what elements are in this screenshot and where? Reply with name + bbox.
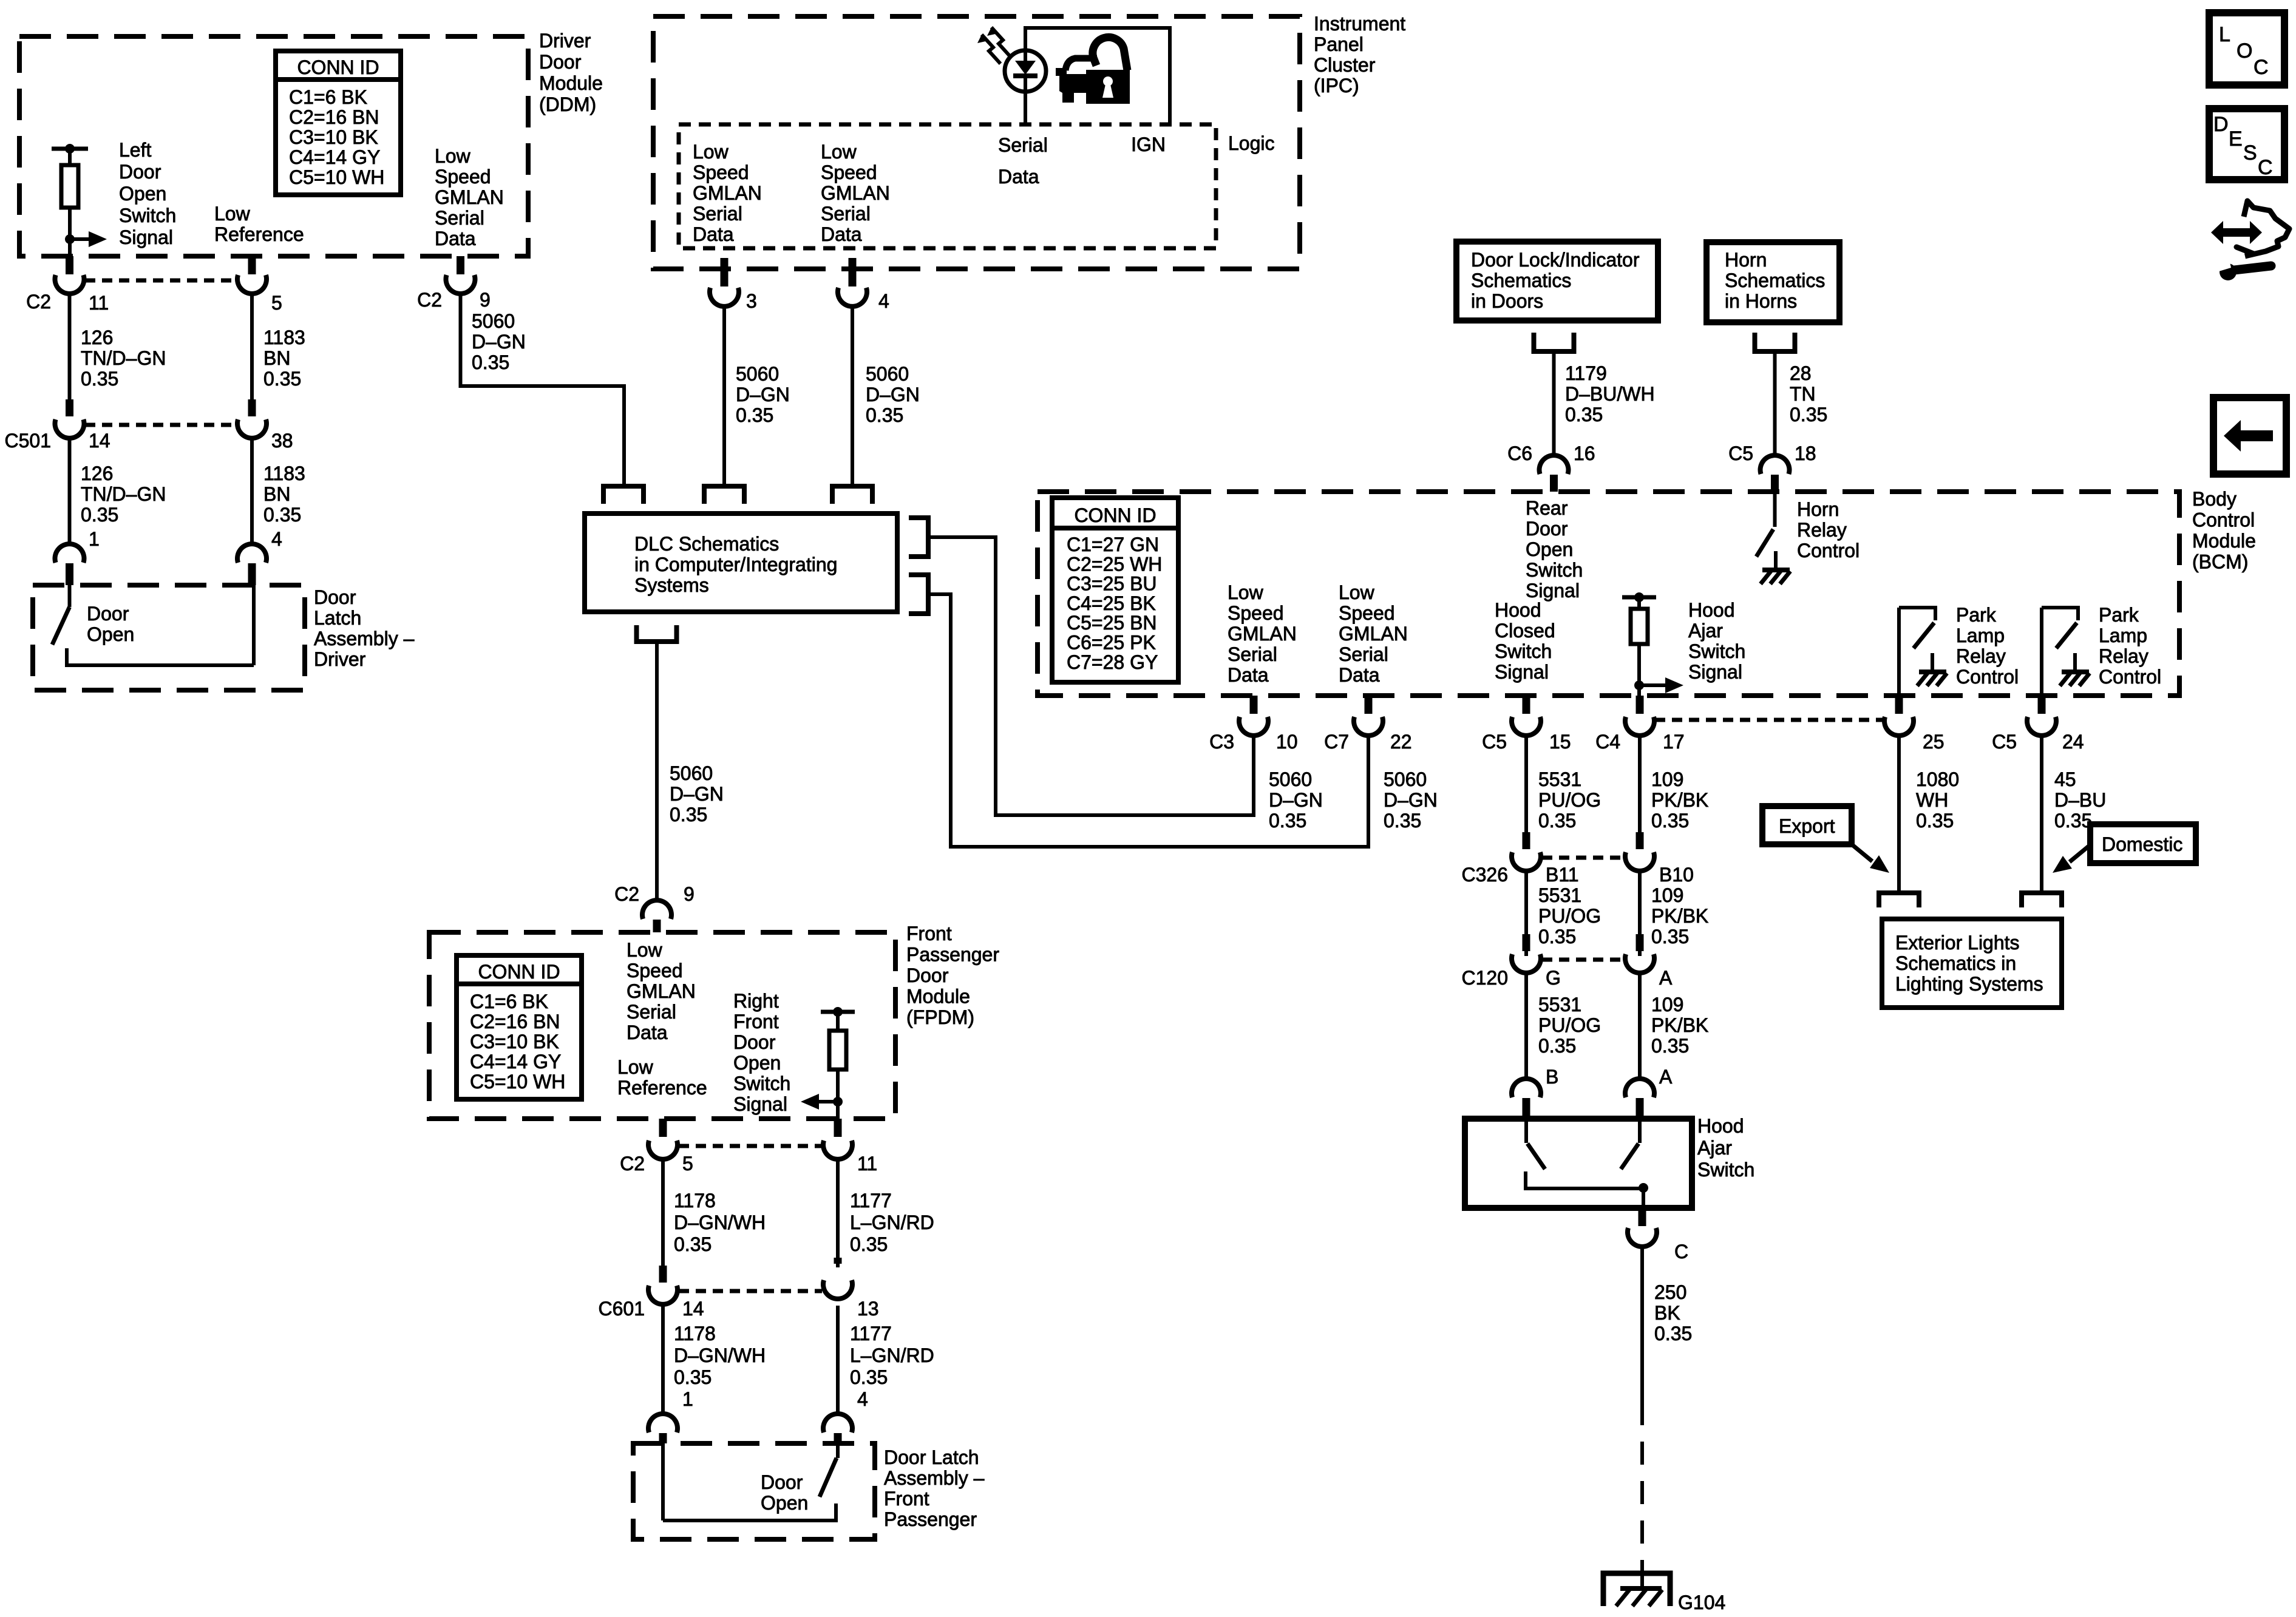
svg-text:C1=6 BK: C1=6 BK <box>470 991 548 1012</box>
label C2 9 (FPDM) <box>614 883 695 905</box>
svg-text:5531: 5531 <box>1538 768 1581 790</box>
connector latch pin 1 <box>55 544 84 585</box>
ground G104 <box>1603 1567 1670 1606</box>
resistor hood ajar (BCM) <box>1622 592 1656 696</box>
label wire 109 PK/BK 0.35 seg1 <box>1651 768 1708 832</box>
svg-text:Door: Door <box>733 1031 776 1053</box>
in-line dotted link pin17 to pin25 <box>1655 718 1884 722</box>
in-line connector row C2 FPDM dotted <box>679 1144 822 1148</box>
svg-text:PU/OG: PU/OG <box>1538 905 1601 927</box>
connector IPC pin 3 <box>710 258 739 307</box>
wire DLC to BCM C7-22 <box>931 594 1368 847</box>
connector C2 pin 9 (FPDM) <box>642 900 671 932</box>
node junction + arrow hood ajar switch signal <box>1634 677 1683 693</box>
svg-text:0.35: 0.35 <box>472 351 509 373</box>
svg-text:L–GN/RD: L–GN/RD <box>850 1344 934 1366</box>
svg-text:1080: 1080 <box>1916 768 1959 790</box>
svg-text:Lamp: Lamp <box>2099 625 2147 646</box>
label Exterior Lights Schematics in Lighting Systems <box>1895 932 2043 995</box>
svg-text:D–GN: D–GN <box>1269 789 1323 811</box>
svg-text:Open: Open <box>1526 538 1573 560</box>
svg-text:D–GN/WH: D–GN/WH <box>674 1344 766 1366</box>
connector latch pin 4 <box>237 544 267 585</box>
label wire 45 D-BU 0.35 <box>2054 768 2106 832</box>
svg-text:C2=25 WH: C2=25 WH <box>1067 553 1162 575</box>
module box Front Passenger Door Module (FPDM) <box>429 932 895 1119</box>
in-line connector row C501 dotted <box>85 423 237 427</box>
label wire 5060 D-GN 0.35 (C7) <box>1384 768 1438 832</box>
module box Instrument Panel Cluster (IPC) <box>653 16 1300 269</box>
svg-text:Low: Low <box>435 145 471 167</box>
label C5 24 <box>1992 731 2084 753</box>
svg-text:9: 9 <box>480 289 491 311</box>
svg-text:D–BU/WH: D–BU/WH <box>1565 383 1655 405</box>
label pin C <box>1674 1241 1688 1263</box>
svg-text:E: E <box>2229 127 2243 151</box>
svg-text:C5: C5 <box>1728 442 1753 464</box>
svg-text:Control: Control <box>2099 666 2161 688</box>
svg-text:C1=6 BK: C1=6 BK <box>289 86 367 108</box>
svg-text:C601: C601 <box>599 1298 645 1320</box>
label wire 1080 WH 0.35 <box>1916 768 1959 832</box>
label Door Lock/Indicator Schematics in Doors <box>1471 249 1640 312</box>
label Door Latch Assembly - Driver <box>314 586 415 670</box>
resistor right front door open switch (FPDM) <box>821 1007 855 1119</box>
svg-text:Switch: Switch <box>119 205 176 226</box>
switch door open (passenger latch) <box>663 1443 838 1520</box>
svg-text:0.35: 0.35 <box>736 404 773 426</box>
label wire 5060 D-GN 0.35 (mid) <box>670 762 724 825</box>
svg-text:0.35: 0.35 <box>674 1366 712 1388</box>
svg-text:CONN ID: CONN ID <box>1074 504 1156 526</box>
svg-text:BK: BK <box>1654 1302 1680 1324</box>
svg-text:C3=10 BK: C3=10 BK <box>470 1031 559 1053</box>
svg-text:D–BU: D–BU <box>2054 789 2106 811</box>
svg-text:5060: 5060 <box>1269 768 1312 790</box>
svg-text:G104: G104 <box>1678 1592 1725 1613</box>
svg-text:5060: 5060 <box>866 363 909 385</box>
table CONN ID (BCM) <box>1052 498 1178 682</box>
label C4 17 <box>1595 731 1685 753</box>
svg-text:17: 17 <box>1663 731 1685 753</box>
svg-text:C5=10 WH: C5=10 WH <box>470 1071 565 1093</box>
svg-text:C: C <box>2254 56 2269 79</box>
svg-text:15: 15 <box>1549 731 1571 753</box>
tab DLC right B <box>909 575 928 614</box>
svg-text:CONN ID: CONN ID <box>478 961 560 983</box>
svg-text:Serial: Serial <box>435 207 484 229</box>
svg-text:Low: Low <box>693 141 729 163</box>
callout box Export <box>1762 806 1852 844</box>
connector C4 pin 17 (BCM) <box>1625 696 1654 736</box>
connector hood switch pin C <box>1628 1208 1657 1247</box>
svg-text:126: 126 <box>81 463 113 484</box>
svg-text:4: 4 <box>271 528 282 550</box>
svg-text:Body: Body <box>2192 488 2237 510</box>
wire 109 PK/BK seg2 <box>1638 872 1642 956</box>
svg-text:Signal: Signal <box>733 1093 787 1115</box>
svg-text:C2=16 BN: C2=16 BN <box>470 1011 560 1032</box>
svg-text:Serial: Serial <box>1339 643 1388 665</box>
svg-text:Signal: Signal <box>1526 580 1580 602</box>
svg-text:Speed: Speed <box>1339 602 1395 624</box>
label Low Speed GMLAN Serial Data (IPC right) <box>821 141 890 245</box>
wire 1080 WH <box>1897 737 1901 890</box>
svg-text:Serial: Serial <box>693 203 742 225</box>
svg-text:Hood: Hood <box>1495 599 1541 621</box>
svg-text:0.35: 0.35 <box>263 504 301 526</box>
label IPC name <box>1314 13 1405 97</box>
label wire 5531 PU/OG 0.35 seg2 <box>1538 884 1601 947</box>
connector C601 pin 13 <box>823 1258 852 1299</box>
svg-text:Ajar: Ajar <box>1697 1137 1732 1159</box>
svg-text:Park: Park <box>1956 604 1997 626</box>
svg-text:Open: Open <box>733 1052 781 1074</box>
svg-text:C2: C2 <box>26 291 51 313</box>
svg-text:109: 109 <box>1651 884 1683 906</box>
wire 109 PK/BK seg3 <box>1638 974 1642 1078</box>
svg-text:C6=25 PK: C6=25 PK <box>1067 632 1156 654</box>
svg-text:11: 11 <box>857 1153 877 1175</box>
svg-text:D–GN: D–GN <box>736 384 790 405</box>
svg-text:(DDM): (DDM) <box>539 93 596 115</box>
svg-text:Data: Data <box>1228 664 1269 686</box>
label wire 1183 BN 0.35 (lower) <box>263 463 305 526</box>
connector C120 pin G <box>1512 934 1541 973</box>
connector C2 pin 5 (FPDM) <box>648 1119 678 1159</box>
label wire 5060 D-GN 0.35 (IPC-3) <box>736 363 790 426</box>
connector C5 pin 18 <box>1761 455 1790 492</box>
svg-text:B: B <box>1546 1066 1558 1088</box>
connector hood switch pin A <box>1625 1079 1654 1119</box>
svg-text:Serial: Serial <box>627 1001 676 1023</box>
svg-text:Control: Control <box>1956 666 2019 688</box>
svg-text:PU/OG: PU/OG <box>1538 789 1601 811</box>
tab DLC top 3 <box>832 486 872 504</box>
label Serial Data <box>998 134 1048 188</box>
module box Door Lock/Indicator Schematics in Doors <box>1456 242 1658 320</box>
svg-text:Reference: Reference <box>617 1077 707 1099</box>
svg-text:Reference: Reference <box>214 223 304 245</box>
label Park Lamp Relay Control 2 <box>2099 604 2161 688</box>
wire 1179 D-BU/WH <box>1552 354 1556 454</box>
label Low Speed GMLAN Serial Data (IPC left) <box>693 141 762 245</box>
svg-text:1178: 1178 <box>674 1190 716 1212</box>
label G104 <box>1678 1592 1725 1613</box>
svg-text:IGN: IGN <box>1131 134 1166 155</box>
svg-text:18: 18 <box>1795 442 1816 464</box>
svg-text:Switch: Switch <box>1697 1159 1754 1181</box>
label Low Speed GMLAN Serial Data (DDM) <box>435 145 504 249</box>
svg-text:Switch: Switch <box>1688 640 1745 662</box>
svg-text:Data: Data <box>821 223 862 245</box>
svg-text:GMLAN: GMLAN <box>1339 623 1408 645</box>
svg-text:C2: C2 <box>620 1153 645 1175</box>
svg-text:Ajar: Ajar <box>1688 620 1723 642</box>
svg-text:Horn: Horn <box>1725 249 1767 271</box>
svg-text:Data: Data <box>435 228 476 249</box>
label Hood Closed Switch Signal <box>1495 599 1555 683</box>
svg-text:D: D <box>2213 113 2229 136</box>
svg-text:Low: Low <box>1228 581 1264 603</box>
svg-text:GMLAN: GMLAN <box>627 980 696 1002</box>
svg-text:Control: Control <box>1797 540 1860 561</box>
svg-text:C4=25 BK: C4=25 BK <box>1067 592 1156 614</box>
tab DLC right A <box>909 518 928 557</box>
module box Door Latch Assembly - Driver <box>33 585 305 690</box>
table CONN ID (FPDM) <box>457 955 582 1099</box>
wire 1177 L-GN/RD seg1 <box>836 1161 840 1267</box>
svg-text:A: A <box>1659 1066 1673 1088</box>
svg-text:Driver: Driver <box>314 648 366 670</box>
svg-text:Door: Door <box>87 603 129 625</box>
svg-text:38: 38 <box>271 430 293 452</box>
svg-text:0.35: 0.35 <box>850 1366 888 1388</box>
tab Horn box bottom <box>1755 333 1795 351</box>
svg-text:0.35: 0.35 <box>866 404 903 426</box>
svg-text:28: 28 <box>1790 362 1812 384</box>
svg-text:Switch: Switch <box>1526 559 1583 581</box>
svg-text:Lighting Systems: Lighting Systems <box>1895 973 2043 995</box>
svg-text:Control: Control <box>2192 509 2255 531</box>
svg-text:C3=10 BK: C3=10 BK <box>289 126 378 148</box>
svg-text:0.35: 0.35 <box>674 1233 712 1255</box>
svg-text:0.35: 0.35 <box>81 504 118 526</box>
connector C5 pin 15 (BCM) <box>1512 696 1541 736</box>
label wire 250 BK 0.35 <box>1654 1281 1692 1344</box>
module box DLC Schematics <box>585 514 897 612</box>
wire 28 TN <box>1773 354 1777 454</box>
label wire 109 PK/BK 0.35 seg2 <box>1651 884 1708 947</box>
label FPDM name <box>906 923 999 1028</box>
label Hood Ajar Switch <box>1697 1115 1754 1181</box>
node junction + arrow right front door open switch signal <box>801 1094 843 1110</box>
svg-text:109: 109 <box>1651 994 1683 1015</box>
label latch pins 1 4 <box>89 528 282 550</box>
svg-text:13: 13 <box>857 1298 879 1320</box>
svg-text:C5=25 BN: C5=25 BN <box>1067 612 1157 634</box>
svg-text:C7: C7 <box>1324 731 1349 753</box>
module box Body Control Module (BCM) <box>1038 492 2179 696</box>
svg-text:D–GN: D–GN <box>472 331 526 353</box>
svg-text:1177: 1177 <box>850 1190 892 1212</box>
label pins 3 4 <box>746 290 889 312</box>
node junction + arrow left door open switch signal <box>65 231 107 256</box>
svg-text:Park: Park <box>2099 604 2139 626</box>
connector C120 pin A <box>1625 934 1654 973</box>
wire 45 D-BU <box>2040 737 2043 890</box>
svg-text:1177: 1177 <box>850 1323 892 1344</box>
connector C2 pin 11 (DDM) <box>55 256 84 294</box>
label C120 G A <box>1462 967 1673 989</box>
relay horn relay control switch <box>1756 492 1790 584</box>
label C326 B11 B10 <box>1462 864 1694 886</box>
svg-text:126: 126 <box>81 327 113 348</box>
svg-text:L–GN/RD: L–GN/RD <box>850 1212 934 1233</box>
svg-text:Door: Door <box>539 51 582 73</box>
svg-text:0.35: 0.35 <box>850 1233 888 1255</box>
svg-text:Speed: Speed <box>1228 602 1284 624</box>
svg-text:Signal: Signal <box>119 226 173 248</box>
svg-text:1183: 1183 <box>263 327 305 348</box>
svg-text:Low: Low <box>617 1056 654 1078</box>
svg-text:1183: 1183 <box>263 463 305 484</box>
connector C501 pin 14 <box>55 399 84 438</box>
svg-text:Left: Left <box>119 139 151 161</box>
label Horn Relay Control <box>1797 498 1860 561</box>
svg-text:Relay: Relay <box>2099 645 2148 667</box>
svg-text:C: C <box>1674 1241 1688 1263</box>
tab DLC bottom <box>637 625 677 642</box>
svg-text:Low: Low <box>627 939 663 961</box>
svg-text:22: 22 <box>1390 731 1412 753</box>
svg-text:C4: C4 <box>1595 731 1620 753</box>
svg-text:A: A <box>1659 967 1673 989</box>
label Door Open (passenger latch) <box>761 1471 808 1514</box>
svg-text:0.35: 0.35 <box>1538 926 1576 947</box>
svg-text:C4=14 GY: C4=14 GY <box>289 146 380 168</box>
svg-text:(IPC): (IPC) <box>1314 75 1359 97</box>
svg-text:0.35: 0.35 <box>1269 810 1306 832</box>
svg-text:Signal: Signal <box>1495 661 1549 683</box>
svg-text:DLC Schematics: DLC Schematics <box>634 533 779 555</box>
svg-text:5531: 5531 <box>1538 884 1581 906</box>
svg-text:C5: C5 <box>1482 731 1507 753</box>
svg-text:G: G <box>1546 967 1561 989</box>
svg-text:0.35: 0.35 <box>2054 810 2092 832</box>
label wire 28 TN 0.35 <box>1790 362 1827 425</box>
svg-text:5060: 5060 <box>670 762 713 784</box>
svg-text:PK/BK: PK/BK <box>1651 1014 1708 1036</box>
svg-text:C3: C3 <box>1209 731 1234 753</box>
wire 1178 D-GN/WH seg1 <box>661 1161 665 1267</box>
connector C7 pin 22 (BCM) <box>1354 696 1383 736</box>
svg-text:0.35: 0.35 <box>1790 404 1827 425</box>
svg-text:Front: Front <box>733 1011 779 1032</box>
label Rear Door Open Switch Signal <box>1526 497 1583 602</box>
svg-text:Low: Low <box>1339 581 1375 603</box>
connector C601 pin 14 <box>648 1266 678 1304</box>
wire 5531 PU/OG seg2 <box>1524 872 1528 956</box>
svg-text:0.35: 0.35 <box>1651 1035 1689 1057</box>
label C601 14 13 <box>599 1298 879 1320</box>
svg-text:Door: Door <box>906 964 949 986</box>
svg-text:Data: Data <box>693 223 734 245</box>
icon car with padlock <box>1056 37 1130 104</box>
in-line connector row C120 dotted <box>1542 958 1624 962</box>
label wire 1178 D-GN/WH 0.35 seg1 <box>674 1190 766 1255</box>
svg-text:Cluster: Cluster <box>1314 54 1376 76</box>
svg-text:C1=27 GN: C1=27 GN <box>1067 534 1159 555</box>
svg-text:C7=28 GY: C7=28 GY <box>1067 651 1158 673</box>
svg-text:Speed: Speed <box>627 960 683 981</box>
wire 5060 D-GN from DDM C2-9 <box>461 295 625 486</box>
svg-text:Door: Door <box>314 586 356 608</box>
svg-text:Open: Open <box>87 623 134 645</box>
wire 1177 L-GN/RD seg2 <box>836 1306 840 1413</box>
tab Door Lock box bottom <box>1534 333 1574 351</box>
svg-text:Speed: Speed <box>821 161 877 183</box>
label C7 22 <box>1324 731 1412 753</box>
label C3 10 <box>1209 731 1298 753</box>
svg-text:Schematics: Schematics <box>1725 269 1825 291</box>
svg-text:14: 14 <box>682 1298 704 1320</box>
svg-text:C4=14 GY: C4=14 GY <box>470 1051 561 1073</box>
svg-text:C2: C2 <box>614 883 639 905</box>
label Low Reference (FPDM) <box>617 1056 707 1099</box>
label DDM name <box>539 30 603 115</box>
svg-text:Schematics in: Schematics in <box>1895 952 2016 974</box>
connector C501 pin 38 <box>237 399 267 438</box>
svg-text:D–GN: D–GN <box>670 783 724 805</box>
svg-text:Latch: Latch <box>314 607 361 629</box>
svg-text:Door: Door <box>1526 518 1568 540</box>
label C2 and pins 11 5 9 <box>26 289 491 314</box>
svg-text:C2=16 BN: C2=16 BN <box>289 106 379 128</box>
connector C3 pin 10 (BCM) <box>1239 696 1268 736</box>
label Hood Ajar Switch Signal <box>1688 599 1745 683</box>
svg-text:25: 25 <box>1923 731 1944 753</box>
svg-text:Relay: Relay <box>1956 645 2006 667</box>
svg-text:CONN ID: CONN ID <box>297 56 379 78</box>
connector C2 pin 9 (DDM) <box>446 256 475 294</box>
svg-text:Relay: Relay <box>1797 519 1847 541</box>
svg-text:Open: Open <box>761 1492 808 1514</box>
svg-text:Passenger: Passenger <box>906 944 999 966</box>
wire 250 BK dashed to ground <box>1640 1402 1644 1567</box>
svg-text:Logic: Logic <box>1228 132 1275 154</box>
connector C6 pin 16 <box>1540 455 1569 492</box>
svg-text:Driver: Driver <box>539 30 591 52</box>
label Low Reference (DDM) <box>214 203 304 245</box>
table CONN ID (DDM) <box>276 51 401 195</box>
svg-text:Domestic: Domestic <box>2102 833 2182 855</box>
svg-text:1: 1 <box>89 528 100 550</box>
svg-text:Speed: Speed <box>693 161 749 183</box>
module box Door Latch Assembly - Front Passenger <box>633 1443 875 1539</box>
svg-text:WH: WH <box>1916 789 1948 811</box>
svg-text:0.35: 0.35 <box>1651 926 1689 947</box>
tab DLC top 2 <box>704 486 744 504</box>
wire 5060 D-GN from IPC-4 <box>851 308 854 486</box>
svg-text:5: 5 <box>271 292 282 314</box>
svg-text:Export: Export <box>1779 815 1835 837</box>
label wire 126 TN/D-GN 0.35 (upper) <box>81 327 166 390</box>
in-line connector row C601 dotted <box>679 1289 822 1293</box>
svg-text:5060: 5060 <box>472 310 515 332</box>
svg-text:Exterior Lights: Exterior Lights <box>1895 932 2020 954</box>
svg-text:0.35: 0.35 <box>263 368 301 390</box>
svg-text:0.35: 0.35 <box>1916 810 1954 832</box>
label wire 1179 D-BU/WH 0.35 <box>1565 362 1655 425</box>
svg-text:1178: 1178 <box>674 1323 716 1344</box>
svg-text:TN/D–GN: TN/D–GN <box>81 483 166 505</box>
svg-text:Hood: Hood <box>1688 599 1735 621</box>
icon box left arrow <box>2213 398 2286 474</box>
svg-text:Door: Door <box>119 161 161 183</box>
svg-text:C2: C2 <box>417 289 442 311</box>
module box Exterior Lights Schematics <box>1882 919 2062 1008</box>
svg-text:B11: B11 <box>1546 864 1579 886</box>
svg-text:Low: Low <box>214 203 251 225</box>
svg-text:Switch: Switch <box>1495 640 1552 662</box>
svg-text:1: 1 <box>682 1388 693 1410</box>
LED indicator diode (IPC) <box>1005 50 1046 92</box>
svg-text:Serial: Serial <box>1228 643 1277 665</box>
svg-text:4: 4 <box>878 290 889 312</box>
in-line connector row C326 dotted <box>1542 856 1624 860</box>
label Right Front Door Open Switch Signal <box>733 990 790 1115</box>
